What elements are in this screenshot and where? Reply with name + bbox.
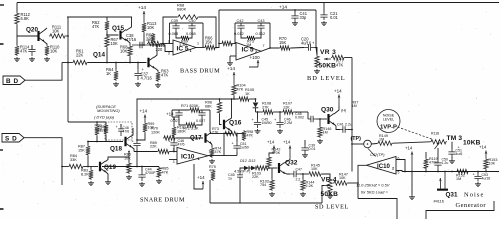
ground under R85 [156, 179, 162, 184]
resistor R63 on Q14 emitter [154, 68, 158, 72]
svg-text:R118: R118 [431, 132, 439, 136]
ground under R86 [126, 175, 132, 180]
wire Q16 emitter [224, 130, 232, 134]
svg-text:1VP-P: 1VP-P [380, 125, 397, 131]
svg-text:4700P: 4700P [145, 171, 156, 175]
wire +14 sub rail down [316, 10, 317, 55]
wire R112 to Q20 base [17, 25, 38, 36]
svg-text:10K: 10K [311, 167, 318, 171]
svg-text:10K: 10K [111, 41, 119, 46]
svg-text:68K: 68K [205, 104, 212, 108]
dashed outline SMD package [105, 122, 132, 140]
svg-text:470K: 470K [429, 161, 438, 165]
capacitor C50 [198, 110, 205, 118]
resistor R153 [484, 158, 488, 170]
wire C38 node to opamp input [150, 45, 173, 52]
wire bus to test point [352, 143, 364, 145]
svg-text:47K: 47K [162, 170, 169, 174]
wire R145 to VR4 [322, 174, 330, 178]
svg-text:10K: 10K [339, 176, 346, 180]
svg-text:0.002: 0.002 [295, 116, 304, 120]
wire R104 to line [233, 96, 235, 99]
wire Q20 base down [16, 36, 18, 45]
potentiometer VR3 [315, 55, 319, 68]
svg-text:10K: 10K [50, 49, 58, 54]
wire bus to snare [68, 121, 106, 123]
capacitor C21 decoupling [323, 3, 325, 13]
svg-text:+14: +14 [279, 5, 287, 11]
wire oscillator box top [67, 16, 132, 18]
svg-text:1: 1 [209, 150, 211, 154]
svg-text:Q15: Q15 [112, 25, 124, 32]
ground under VR4 [327, 194, 333, 199]
wire C50b to noise bus [437, 170, 439, 172]
svg-text:(H): (H) [341, 109, 347, 113]
svg-text:1: 1 [197, 42, 199, 46]
wire Q18 base extend [88, 141, 106, 143]
wire feedback box 2 top [235, 22, 270, 24]
supply arrow D [233, 72, 235, 84]
scan mark left edge 2 [0, 43, 4, 45]
ground under R64 [113, 82, 119, 87]
svg-text:1M: 1M [456, 177, 461, 181]
svg-text:2.2: 2.2 [296, 178, 301, 182]
wire R153 to bus [485, 170, 487, 172]
wire IC10-1 plus input [169, 159, 177, 161]
noise level circle [377, 110, 400, 133]
svg-text:22K: 22K [76, 53, 84, 58]
resistor R68 680K [177, 15, 199, 19]
svg-text:0.012: 0.012 [256, 32, 266, 36]
resistor R73 twin-T [241, 31, 246, 38]
diode D13 [251, 166, 256, 171]
svg-text:+14: +14 [267, 140, 275, 145]
input tag BD [3, 76, 25, 85]
resistor R89 [157, 149, 170, 153]
svg-text:Q32: Q32 [285, 160, 298, 167]
resistor R115 [151, 33, 155, 44]
ground under C51 [451, 157, 453, 159]
svg-text:4.7/16: 4.7/16 [141, 76, 153, 81]
resistor R107 [282, 110, 294, 114]
resistor R70 [279, 46, 291, 50]
op-amp IC5-1 [173, 40, 196, 55]
svg-text:1.2u: 1.2u [442, 161, 449, 165]
svg-text:11.0·25KHZ ≈ 0.5V: 11.0·25KHZ ≈ 0.5V [356, 183, 390, 188]
ground under C36 [29, 57, 35, 62]
supply arrow C [144, 115, 146, 123]
svg-text:Q30: Q30 [321, 107, 334, 114]
wire R111 to node [66, 35, 68, 37]
resistor R101 [172, 126, 176, 137]
op-amp IC5-2 [236, 43, 261, 61]
ground under R114 [14, 57, 20, 62]
wire Q15 collector [126, 17, 132, 31]
svg-text:Q17: Q17 [190, 135, 202, 142]
ground under R110 [44, 57, 50, 62]
svg-text:47K: 47K [92, 24, 100, 29]
svg-text:S D: S D [5, 135, 17, 142]
wire R70 to C20 [291, 47, 304, 50]
ground under Q19 [105, 180, 111, 185]
wire R147 to mixer node [348, 182, 358, 184]
svg-text:47/6: 47/6 [178, 143, 185, 147]
svg-text:47K: 47K [215, 150, 222, 154]
scan mark left edge 3 [0, 149, 3, 151]
svg-text:12K: 12K [283, 105, 290, 109]
resistor R152 series [456, 169, 469, 173]
capacitor C48 in package [120, 124, 122, 127]
capacitor C49 [175, 110, 182, 118]
svg-text:0.027: 0.027 [196, 119, 205, 123]
wire noise bus [402, 171, 499, 173]
scan speckle noise [161, 33, 164, 36]
wire Q14 collector [154, 45, 157, 58]
svg-text:IC10: IC10 [181, 154, 195, 161]
wire IC5-1 output [196, 47, 204, 49]
wire R90 to Q18 base [106, 135, 123, 142]
wire Q14 base line [62, 62, 72, 64]
resistor R151 [425, 152, 427, 158]
resistor R149 [377, 141, 393, 145]
ground under C44 [139, 182, 145, 187]
wire Q18 emitter node [131, 147, 134, 152]
wire feedback box 1 top [170, 22, 204, 24]
wire Q19 emitter [106, 172, 109, 181]
svg-text:40K: 40K [209, 169, 216, 173]
resistor R86 [128, 152, 130, 163]
wire SD bottom bus [210, 202, 322, 204]
svg-text:LEVEL: LEVEL [383, 118, 394, 122]
wire IC10-2 output [358, 165, 367, 198]
svg-text:33p: 33p [300, 15, 308, 20]
svg-text:27K: 27K [262, 105, 269, 109]
svg-text:+14: +14 [197, 175, 205, 180]
svg-text:2.2M: 2.2M [284, 121, 292, 125]
svg-text:BASS DRUM: BASS DRUM [180, 68, 220, 75]
svg-text:1M: 1M [323, 131, 328, 135]
capacitor C45b [240, 168, 244, 172]
resistor R102 [271, 168, 273, 179]
resistor R73b [224, 131, 238, 135]
svg-text:0.027: 0.027 [171, 119, 180, 123]
svg-text:120K: 120K [151, 130, 160, 134]
resistor R112 [15, 12, 19, 25]
wire SD tag to corner [24, 138, 62, 185]
trimmer TM3 [430, 140, 447, 144]
svg-text:47K: 47K [247, 134, 254, 138]
ground under C45 [255, 129, 261, 134]
svg-text:22K: 22K [150, 145, 157, 149]
svg-text:0.068: 0.068 [169, 32, 179, 36]
svg-text:SNARE DRUM: SNARE DRUM [140, 197, 185, 204]
svg-text:470K: 470K [272, 151, 281, 155]
svg-text:47/16: 47/16 [126, 37, 137, 42]
wire C45b down to SD bus [239, 180, 241, 203]
supply arrow G2 [289, 146, 291, 160]
wire Q20 emitter to R110 [44, 42, 47, 46]
wire C45c to base line [136, 149, 138, 167]
svg-text:D13: D13 [249, 159, 257, 163]
ground under C41 [292, 21, 298, 26]
svg-text:27K: 27K [212, 131, 219, 135]
wire VR4 wiper out [322, 186, 324, 204]
capacitor C36 [31, 45, 33, 50]
ground under C21 [321, 21, 327, 26]
wire IC5-2 plus input [230, 55, 236, 57]
wire Q32 emitter [285, 173, 291, 174]
wire Q14 collector to R115 [150, 44, 157, 46]
wire R77 to right bus [345, 57, 352, 59]
svg-text:3: 3 [168, 52, 170, 56]
wire Q19 base line [62, 166, 68, 168]
wire TP to R149 [371, 143, 377, 146]
wire feedback box 1 left [169, 23, 171, 44]
svg-text:+14: +14 [283, 140, 291, 145]
wire output to bottom right [358, 199, 397, 220]
resistor R62 [106, 17, 108, 20]
svg-text:+100: +100 [250, 55, 261, 60]
resistor R87 bias [87, 142, 89, 146]
capacitor C44 [141, 167, 143, 172]
capacitor C47 coupling [290, 171, 300, 177]
svg-text:Q14: Q14 [93, 52, 105, 59]
svg-text:( DYD )a)a): ( DYD )a)a) [94, 115, 115, 120]
capacitor C37 electrolytic [137, 63, 139, 70]
wire right vertical bus [351, 58, 353, 172]
ground IC5-2 plus input [227, 61, 233, 66]
svg-text:1u: 1u [228, 177, 232, 181]
wire output node vertical [223, 134, 225, 156]
wire C47 to R145 [300, 173, 308, 175]
junction bus crossing [67, 62, 69, 64]
supply arrow F [338, 95, 340, 107]
svg-text:VR 3: VR 3 [320, 49, 336, 56]
capacitor C39b [304, 140, 306, 145]
wire R96 to Q16 base [220, 114, 222, 125]
resistor R67 [105, 35, 109, 48]
wire C46 to input [173, 148, 175, 152]
capacitor C53 electrolytic [477, 172, 479, 174]
diode D11 [255, 99, 257, 102]
svg-text:1M: 1M [379, 138, 384, 142]
ground under R144 [300, 192, 306, 197]
svg-text:C43: C43 [258, 19, 265, 23]
svg-text:5: 5 [398, 171, 400, 175]
svg-text:2.2K: 2.2K [306, 184, 314, 188]
svg-text:15K: 15K [279, 40, 287, 45]
svg-text:47/6: 47/6 [123, 129, 130, 133]
resistor R111 [49, 34, 66, 38]
wire Q30 emitter [334, 124, 340, 130]
svg-text:180K: 180K [177, 129, 186, 133]
resistor R146 [319, 119, 321, 126]
svg-text:47K: 47K [20, 49, 28, 54]
capacitor C45 electrolytic [257, 112, 259, 119]
supply arrow G1 [273, 146, 275, 154]
capacitor C43 [257, 23, 264, 31]
wire IC5-2 output [261, 48, 279, 51]
resistor R147 [333, 181, 348, 185]
resistor R96 [217, 101, 221, 114]
svg-text:10K: 10K [147, 25, 155, 30]
supply arrow IC10-1 [202, 181, 204, 189]
op-amp IC10-2 [367, 157, 397, 175]
diode D12 [244, 166, 249, 171]
ground under R83 [88, 181, 94, 186]
svg-text:0.01: 0.01 [330, 15, 339, 20]
input tag SD [2, 134, 24, 143]
resistor R66 [204, 45, 216, 49]
wire Q32 base line [243, 167, 246, 169]
wire Q15 base [107, 31, 119, 35]
capacitor C48b coupling [307, 112, 309, 119]
capacitor C46 electrolytic [173, 137, 175, 140]
wire Q17 collector [210, 110, 211, 133]
resistor R74 [210, 147, 214, 158]
svg-text:MOUNTING): MOUNTING) [97, 108, 120, 113]
svg-text:3: 3 [173, 160, 175, 164]
wire Q32 collector [285, 159, 291, 163]
wire Q20 collector [44, 28, 47, 31]
ground under C39b [302, 153, 308, 158]
resistor R103 [256, 166, 269, 170]
capacitor C51 [451, 142, 453, 149]
svg-text:10K: 10K [489, 162, 496, 166]
svg-text:1K: 1K [245, 92, 250, 96]
resistor R90 [105, 122, 107, 124]
svg-text:1M: 1M [352, 104, 357, 108]
resistor R70b input [163, 136, 176, 140]
wire IC10-1 V+ pin down [194, 164, 203, 189]
wire C20 to VR3 [315, 48, 317, 56]
resistor R68 on Q15 emitter [126, 40, 130, 46]
svg-text:15K: 15K [78, 148, 85, 152]
wire IC10-1 output [208, 155, 224, 157]
capacitor C50b [437, 148, 439, 158]
resistor R65 input [221, 41, 233, 45]
ground under R63 [155, 83, 161, 88]
svg-text:C40: C40 [189, 19, 196, 23]
wire Q16 collector [230, 99, 232, 120]
svg-text:47K: 47K [100, 129, 107, 133]
capacitor C38 electrolytic [132, 42, 150, 48]
wire emitter to IC10 input [134, 151, 157, 153]
supply arrow +100 [257, 60, 259, 67]
ground under VR3 [314, 69, 320, 74]
wire bottom right return [426, 201, 494, 219]
ground under R74 [209, 159, 215, 164]
resistor R105 [238, 97, 250, 101]
svg-text:+14: +14 [334, 89, 342, 94]
svg-text:33K: 33K [70, 158, 77, 162]
op-amp IC10-1 [177, 148, 208, 165]
svg-text:4u/16: 4u/16 [482, 177, 491, 181]
resistor R64 [115, 63, 117, 71]
svg-text:7: 7 [263, 44, 265, 48]
svg-text:0.012: 0.012 [234, 32, 244, 36]
svg-text:C47: C47 [296, 168, 302, 172]
wire C48b to Q30 base [316, 118, 327, 120]
transistor Q31 noise [437, 189, 448, 191]
wire long vertical bus left [67, 17, 69, 122]
svg-text:Q19: Q19 [104, 164, 116, 171]
svg-text:Q16: Q16 [229, 120, 242, 127]
resistor R85 [157, 167, 161, 179]
capacitor C39 [172, 23, 179, 31]
wire C41b to bus [348, 129, 352, 131]
resistor R99 [143, 122, 147, 133]
wire output node up to +14 rail [216, 10, 219, 48]
dashed pointer line [398, 127, 434, 140]
svg-text:680K: 680K [177, 6, 187, 11]
wire Q19 collector to R86 node [106, 157, 130, 162]
supply arrow E [173, 117, 175, 126]
resistor R69 twin-T [176, 31, 180, 38]
svg-text:IC 5: IC 5 [242, 47, 254, 54]
wire base line to C44 [102, 166, 159, 168]
svg-text:+14: +14 [138, 5, 146, 11]
svg-text:1M/50: 1M/50 [262, 121, 272, 125]
wire feedback box 2 left [234, 23, 236, 44]
supply arrow A [143, 11, 145, 22]
svg-text:+14: +14 [227, 66, 235, 72]
test point circle [364, 140, 372, 148]
scan mark left edge 4 [0, 208, 4, 210]
capacitor C41b coupling [340, 126, 348, 132]
svg-text:10K: 10K [120, 49, 128, 54]
svg-text:22K: 22K [252, 175, 259, 179]
svg-text:for 5KΩ Load =: for 5KΩ Load = [361, 190, 388, 195]
svg-text:47K: 47K [336, 63, 344, 68]
resistor R61 [72, 60, 88, 64]
capacitor C45c electrolytic [133, 140, 140, 149]
resistor R83 [90, 167, 92, 170]
resistor R98 [242, 130, 246, 141]
svg-text:B D: B D [6, 78, 19, 85]
wire BD tag to corner [25, 63, 62, 81]
wire snare box top [172, 109, 189, 111]
wire Q17 emitter [211, 143, 212, 147]
svg-text:BD LEVEL: BD LEVEL [307, 75, 346, 82]
capacitor C46b electrolytic [279, 112, 281, 119]
svg-text:(TP): (TP) [351, 136, 362, 142]
supply arrow H [411, 152, 413, 172]
svg-text:+14: +14 [166, 112, 174, 117]
wire R113 to C38 node [139, 33, 144, 45]
svg-text:R71 820K: R71 820K [181, 103, 199, 108]
scan mark left edge 1 [0, 4, 4, 6]
svg-text:Q20: Q20 [26, 27, 38, 34]
svg-text:0.068: 0.068 [186, 32, 196, 36]
resistor R114 [15, 45, 19, 56]
capacitor C41 33p [294, 10, 296, 13]
svg-text:C42: C42 [237, 19, 244, 23]
svg-text:1K: 1K [106, 71, 111, 76]
capacitor C40 [188, 23, 195, 31]
svg-text:47K: 47K [237, 87, 244, 91]
wire top +14V rail [17, 2, 499, 4]
supply arrow I [485, 151, 487, 159]
ground under C37 [135, 82, 141, 87]
resistor R145 [308, 172, 322, 176]
wire emitter chain to output node [210, 133, 224, 135]
wire R149 to TM3 [393, 142, 430, 143]
wire R67 down to BD line [106, 48, 108, 63]
resistor R142 [267, 156, 271, 168]
resistor R104 [232, 84, 236, 96]
svg-text:D12: D12 [240, 159, 248, 163]
